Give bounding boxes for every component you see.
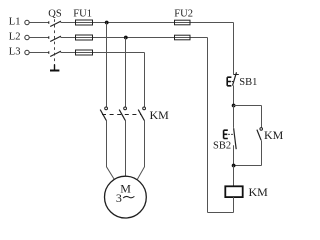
fuse FU1 element 2 xyxy=(76,35,93,40)
wire QS to FU1 row3 xyxy=(61,52,145,54)
wire L3 to QS xyxy=(29,52,48,54)
wire KM aux to branch bottom xyxy=(261,140,263,165)
junction dot bottom of parallel branch xyxy=(232,164,236,168)
svg-text:KM: KM xyxy=(264,128,284,142)
wire contact3 to motor xyxy=(137,120,144,179)
wire branch top horizontal xyxy=(234,105,262,107)
wire branch drop to KM aux xyxy=(261,106,263,128)
svg-text:SB1: SB1 xyxy=(239,77,257,88)
contactor KM main contact 3 terminal circle xyxy=(143,107,146,110)
wire contact1 to motor xyxy=(107,120,115,179)
wire coil to bottom xyxy=(233,197,235,212)
control right chain top segment xyxy=(233,23,235,75)
svg-text:3: 3 xyxy=(116,191,122,205)
svg-text:SB2: SB2 xyxy=(213,141,231,152)
switch QS linkage dashed line xyxy=(54,19,56,64)
switch QS pole 2 fixed contact tick xyxy=(48,36,50,39)
switch QS pole 3 blade xyxy=(50,51,61,56)
junction dot row1 xyxy=(105,21,109,25)
svg-text:L2: L2 xyxy=(9,32,21,43)
wire L1 to QS xyxy=(29,22,48,24)
switch QS handle bar xyxy=(50,70,59,72)
fuse FU1 element 1 xyxy=(76,20,93,25)
pushbutton SB1 actuator dashed link xyxy=(232,81,234,83)
svg-text:QS: QS xyxy=(48,9,62,20)
switch QS pole 1 fixed contact tick xyxy=(48,21,50,24)
pushbutton SB2 blade xyxy=(234,128,237,149)
wire QS to FU1 row2 and on to left rail corner xyxy=(61,37,208,39)
fuse FU2 element 2 xyxy=(175,35,191,40)
svg-text:L3: L3 xyxy=(9,47,21,58)
contactor KM coil xyxy=(225,186,242,197)
wire phase A drop xyxy=(106,23,108,108)
pushbutton SB1 fixed contact tick xyxy=(234,74,239,76)
svg-text:L1: L1 xyxy=(9,17,21,28)
wire phase C drop xyxy=(144,53,146,108)
terminal L3 xyxy=(25,50,29,54)
contactor KM main contact 2 blade xyxy=(119,110,125,121)
contactor KM main contact 2 terminal circle xyxy=(124,107,127,110)
contactor KM main contact 1 terminal circle xyxy=(105,107,108,110)
contactor KM aux contact terminal circle xyxy=(260,128,263,131)
motor M circle xyxy=(105,176,147,218)
wire L2 to QS xyxy=(29,37,48,39)
pushbutton SB1 blade xyxy=(233,72,237,85)
terminal L2 xyxy=(25,35,29,39)
pushbutton SB2 actuator E xyxy=(224,130,228,138)
switch QS pole 3 fixed contact tick xyxy=(48,51,50,54)
wire left control rail xyxy=(207,38,209,213)
wire SB1 to junction xyxy=(233,85,235,105)
contactor KM main contact 3 blade xyxy=(138,110,144,121)
contactor KM main linkage dashed line xyxy=(102,114,141,116)
wire phase B drop xyxy=(125,38,127,108)
wire contact2 to motor xyxy=(125,120,127,176)
junction dot row2 xyxy=(124,36,128,40)
switch QS handle stem xyxy=(54,65,56,71)
svg-text:KM: KM xyxy=(249,185,269,199)
pushbutton SB1 actuator E xyxy=(227,77,231,86)
svg-text:FU2: FU2 xyxy=(174,9,193,20)
motor ~ tilde xyxy=(123,196,134,198)
wire bottom horizontal xyxy=(208,212,234,214)
wire branch bottom horizontal xyxy=(234,165,262,167)
wire junction to SB2 xyxy=(233,106,235,128)
wire SB2 to bottom junction xyxy=(233,145,235,165)
wire junction to coil xyxy=(233,166,235,187)
fuse FU2 element 1 xyxy=(175,20,191,25)
fuse FU1 element 3 xyxy=(76,50,93,55)
switch QS pole 1 blade xyxy=(50,21,61,26)
contactor KM aux contact blade xyxy=(257,130,261,141)
junction dot top of parallel branch xyxy=(232,104,236,108)
svg-text:FU1: FU1 xyxy=(73,9,92,20)
contactor KM main contact 1 blade xyxy=(100,110,106,121)
pushbutton SB2 actuator dashed link xyxy=(228,133,233,135)
terminal L1 xyxy=(25,20,29,24)
svg-text:KM: KM xyxy=(150,108,170,122)
switch QS pole 2 blade xyxy=(50,36,61,41)
wire QS to FU1 row1 and on to right rail corner xyxy=(61,22,234,24)
